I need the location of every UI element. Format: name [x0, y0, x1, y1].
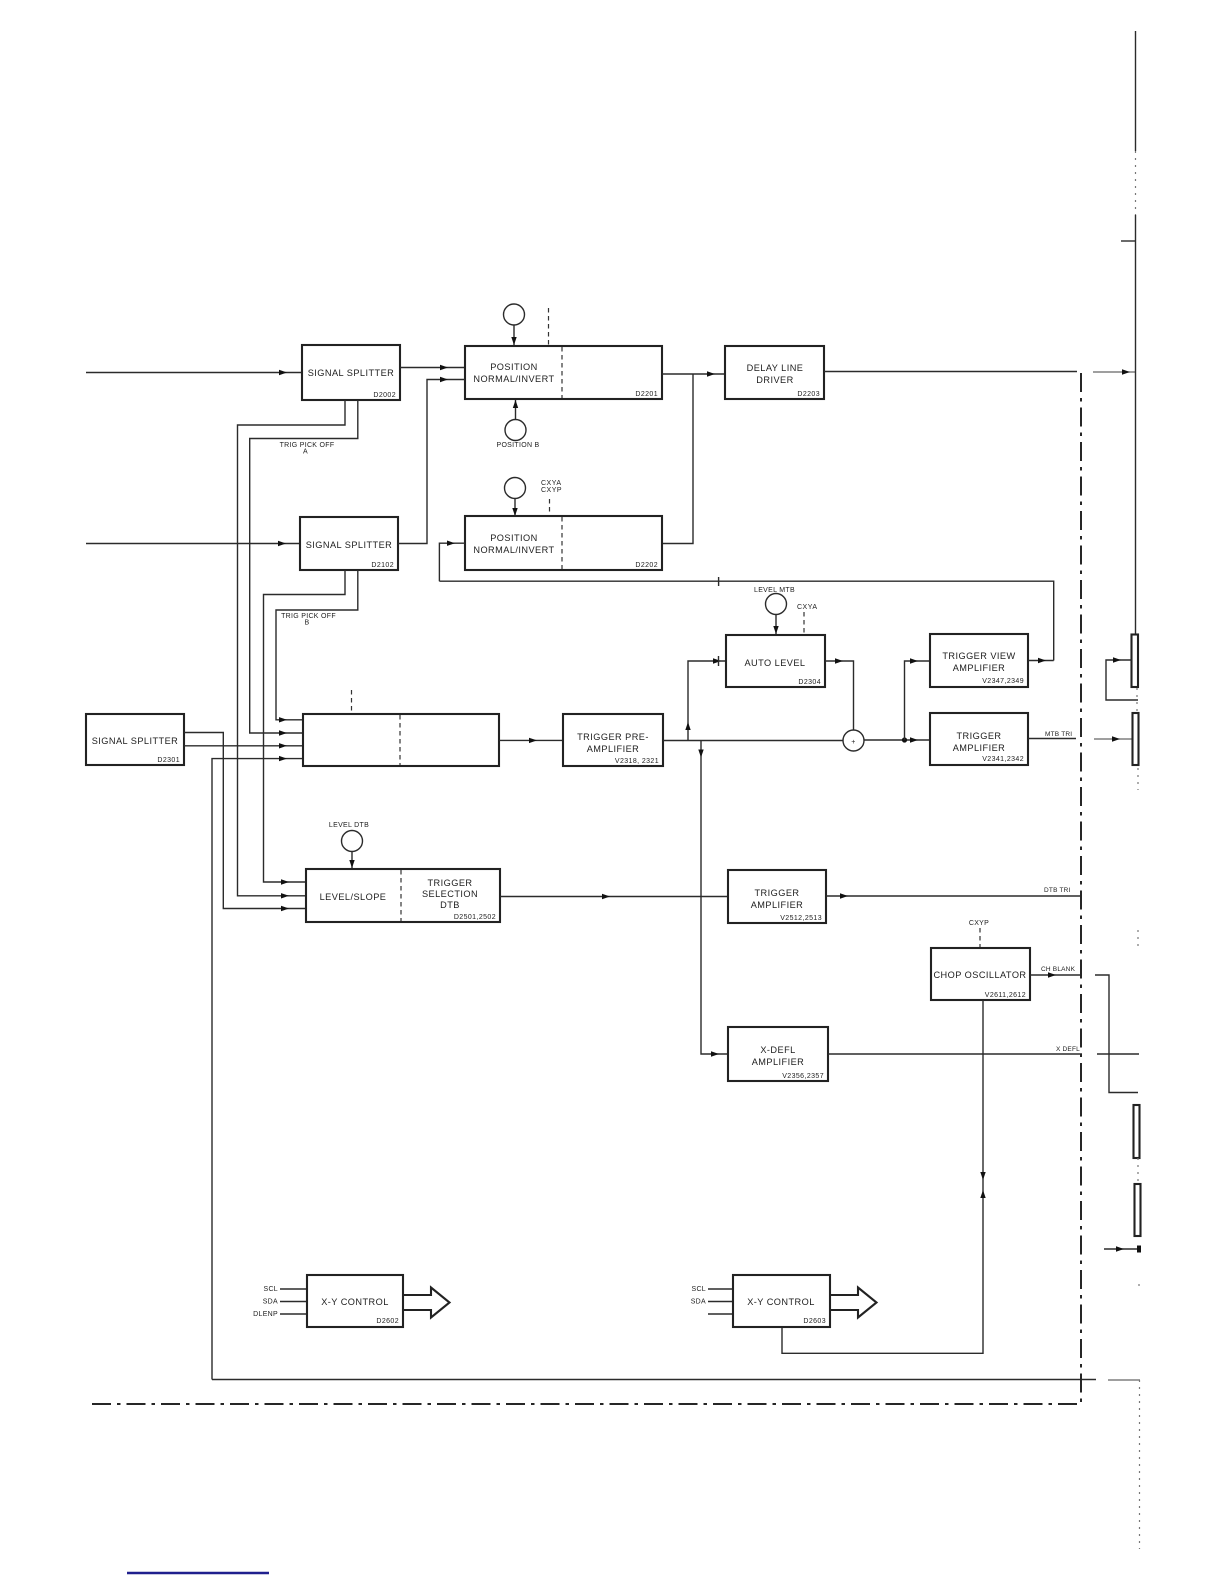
arrowhead into signal splitter D2102	[278, 541, 286, 546]
trigger view amplifier V2347,2349	[930, 634, 1028, 687]
dashed stub above MTB trigger selection box	[351, 690, 353, 713]
dotted page edge below connectors	[1137, 768, 1139, 790]
wire: SCL input to D2603	[708, 1288, 733, 1290]
arrowhead into MTB TRI connector	[1112, 736, 1120, 741]
arrowhead into level/slope top	[349, 860, 354, 868]
arrowhead into trigger view amplifier	[910, 658, 918, 663]
svg-text:D2201: D2201	[635, 391, 658, 398]
svg-text:D2203: D2203	[797, 391, 820, 398]
wire: branch down to X-DEFL amplifier	[701, 741, 728, 1055]
svg-text:NORMAL/INVERT: NORMAL/INVERT	[473, 545, 554, 555]
arrowhead into connector box 1	[1113, 657, 1121, 662]
svg-text:SIGNAL SPLITTER: SIGNAL SPLITTER	[308, 368, 395, 378]
summing node +	[843, 730, 864, 751]
arrowhead on CH BLANK output	[1048, 972, 1056, 977]
arrowhead up into D2201 bottom	[513, 400, 518, 408]
wire: trigger view feedback long horizontal	[439, 581, 1053, 660]
arrowhead on DTB output line	[602, 894, 610, 899]
signal splitter D2002	[302, 345, 400, 400]
svg-text:AMPLIFIER: AMPLIFIER	[953, 663, 1006, 673]
svg-text:CXYA: CXYA	[797, 604, 818, 611]
wire: level pot down into auto level top	[775, 615, 777, 636]
trigger amplifier MTB V2341,2342	[930, 713, 1028, 765]
tick artifact on feedback line	[718, 577, 720, 586]
connector box 2 (MTB TRI)	[1133, 713, 1139, 765]
svg-text:D2202: D2202	[635, 562, 658, 569]
block arrow output of D2603	[830, 1288, 877, 1318]
svg-text:V2341,2342: V2341,2342	[982, 756, 1024, 763]
svg-text:X-DEFL: X-DEFL	[760, 1045, 795, 1055]
svg-text:D2602: D2602	[376, 1318, 399, 1325]
arrowhead into bottom connector	[1116, 1246, 1124, 1251]
svg-text:SELECTION: SELECTION	[422, 889, 478, 899]
svg-text:DLENP: DLENP	[253, 1311, 278, 1318]
svg-text:SIGNAL SPLITTER: SIGNAL SPLITTER	[92, 736, 179, 746]
svg-text:D2102: D2102	[371, 562, 394, 569]
dashed stub above auto level	[803, 612, 805, 634]
svg-text:V2347,2349: V2347,2349	[982, 678, 1024, 685]
wire: level DTB pot down into box top	[351, 852, 353, 870]
svg-text:CXYP: CXYP	[541, 487, 562, 494]
svg-text:TRIGGER: TRIGGER	[754, 888, 799, 898]
tick connector on right edge line	[1121, 240, 1136, 242]
arrowhead down into D2202 top	[512, 508, 517, 516]
wire: trigger view output to feedback loop	[1028, 660, 1054, 662]
wire: channel B input line	[86, 543, 300, 545]
svg-text:CXYP: CXYP	[969, 920, 989, 927]
chop oscillator V2611,2612	[931, 948, 1030, 1000]
dashed stub above D2201	[548, 308, 550, 346]
wire: trig pick off B line 1 from D2102 down to DTB selection	[264, 570, 346, 882]
connector box 1 (trigger view to CRT)	[1132, 635, 1139, 688]
wire: loop into connector box 1	[1106, 660, 1138, 700]
arrowhead up on chop sync line	[980, 1190, 985, 1198]
delay line driver D2203	[725, 346, 824, 399]
arrowhead into D2201 input 1	[440, 365, 448, 370]
wire: third input to D2603	[708, 1313, 733, 1315]
svg-text:SDA: SDA	[263, 1299, 278, 1306]
svg-text:AUTO LEVEL: AUTO LEVEL	[744, 658, 805, 668]
arrowhead down into D2201 top	[511, 337, 516, 345]
svg-text:SDA: SDA	[691, 1299, 706, 1306]
wire: D2002 to D2201 input 1	[400, 367, 465, 369]
wire: trig pick off B line 2 from D2102 down to MTB selection	[276, 570, 358, 720]
X-DEFL amplifier V2356,2357	[728, 1027, 828, 1081]
svg-text:AMPLIFIER: AMPLIFIER	[953, 743, 1006, 753]
wire: SDA input to D2603	[708, 1301, 733, 1303]
dotted page edge dot	[1138, 1284, 1140, 1290]
svg-text:TRIGGER: TRIGGER	[427, 878, 472, 888]
svg-text:V2356,2357: V2356,2357	[782, 1073, 824, 1080]
right edge: faint dashed piece	[1135, 151, 1137, 215]
svg-text:X-Y CONTROL: X-Y CONTROL	[747, 1297, 815, 1307]
svg-text:DTB: DTB	[440, 900, 460, 910]
wire: X DEFL continuation beyond fold	[1097, 1053, 1139, 1055]
wire: faint enclosure continuation beyond fold	[1108, 1379, 1140, 1381]
wire: CH BLANK output	[1030, 974, 1082, 976]
wire: chop oscillator sync line down to X-Y control loop	[782, 1000, 983, 1353]
svg-text:A: A	[303, 449, 308, 456]
fold line: dash-dot boundary vertical and bottom	[86, 373, 1081, 1404]
svg-text:POSITION: POSITION	[490, 362, 538, 372]
wire: trig pick off A line 1 from D2002 down to DTB selection	[238, 400, 346, 896]
wire: DLENP input to D2602	[280, 1313, 307, 1315]
svg-text:LEVEL/SLOPE: LEVEL/SLOPE	[320, 892, 387, 902]
dashed divider inside MTB selection box	[399, 715, 401, 765]
svg-text:NORMAL/INVERT: NORMAL/INVERT	[473, 374, 554, 384]
arrowhead into DTB selection input 1	[281, 879, 289, 884]
potentiometer: POSITION B below D2201	[505, 420, 526, 441]
svg-text:CH BLANK: CH BLANK	[1041, 966, 1076, 973]
arrowhead into DTB selection input 2	[281, 893, 289, 898]
arrowhead into X-DEFL amplifier	[711, 1051, 719, 1056]
trigger pre-amplifier V2318,2321	[563, 714, 663, 766]
junction node dot	[902, 737, 907, 742]
arrowhead on preamp input	[529, 738, 537, 743]
wire: D2201 output to delay line driver	[662, 373, 725, 375]
arrowhead into MTB selection input 3	[279, 743, 287, 748]
dashed divider inside DTB selection box	[400, 870, 402, 921]
dashed divider inside D2201	[561, 347, 563, 398]
arrowhead into delay line driver	[707, 371, 715, 376]
blue pen mark at page bottom	[127, 1572, 269, 1575]
arrowhead on auto level output	[835, 658, 843, 663]
wire: POSITION B pot up into D2201 bottom	[515, 400, 517, 420]
svg-text:V2512,2513: V2512,2513	[780, 915, 822, 922]
svg-text:TRIGGER VIEW: TRIGGER VIEW	[942, 651, 1015, 661]
svg-text:AMPLIFIER: AMPLIFIER	[751, 900, 804, 910]
trigger amplifier DTB V2512,2513	[728, 870, 826, 923]
wire: branch up to trigger view amplifier	[905, 661, 931, 740]
arrowhead into DTB selection input 3	[281, 906, 289, 911]
svg-text:X-Y CONTROL: X-Y CONTROL	[321, 1297, 389, 1307]
svg-text:D2301: D2301	[157, 757, 180, 764]
wire: auto level output down into summing node	[825, 661, 854, 730]
svg-text:DELAY LINE: DELAY LINE	[747, 363, 804, 373]
wire: enclosure feedback into MTB selection input 4	[212, 759, 303, 1380]
svg-text:V2611,2612: V2611,2612	[985, 992, 1026, 999]
block: level/slope + trigger selection DTB D2501,2502	[306, 869, 500, 922]
signal splitter D2301	[86, 714, 184, 765]
wire: stub arrow into bottom connector	[1104, 1248, 1139, 1250]
arrowhead into D2202 input	[447, 541, 455, 546]
wire: junction vertical from D2202 output up to delay line input	[662, 374, 693, 544]
wire: trigger view signal into D2202 input	[439, 543, 465, 581]
op block: position normal/invert D2202	[465, 516, 662, 570]
svg-text:AMPLIFIER: AMPLIFIER	[587, 744, 640, 754]
wire: enclosure bottom line	[212, 1379, 1096, 1381]
wire: delay line output continuation beyond fold	[1093, 371, 1135, 373]
wire: branch up to auto level input	[688, 661, 726, 741]
wire: DTB TRI output to fold line	[826, 895, 1082, 897]
dashed stub above chop oscillator	[979, 928, 981, 947]
dotted page edge between box 3 and 4	[1137, 1158, 1139, 1184]
right edge: main vertical line lower segment	[1135, 215, 1137, 634]
wire: preamp output to summing node	[663, 740, 843, 742]
svg-text:D2603: D2603	[803, 1318, 826, 1325]
arrowhead down on X-DEFL branch	[698, 750, 703, 758]
svg-text:LEVEL DTB: LEVEL DTB	[329, 822, 369, 829]
potentiometer: LEVEL MTB above auto level	[766, 594, 787, 615]
block arrow output of D2602	[403, 1288, 450, 1318]
svg-text:D2002: D2002	[373, 392, 396, 399]
svg-text:DRIVER: DRIVER	[756, 375, 793, 385]
svg-text:D2501,2502: D2501,2502	[454, 914, 496, 921]
wire: CH BLANK continuation beyond fold	[1095, 975, 1138, 1093]
dotted page edge segment near chop	[1137, 930, 1139, 946]
arrowhead on DTB TRI output	[840, 893, 848, 898]
svg-text:+: +	[851, 739, 855, 746]
potentiometer: position A control above D2201	[504, 304, 525, 325]
block: MTB trigger selection (unlabelled)	[303, 714, 499, 766]
svg-text:TRIGGER PRE-: TRIGGER PRE-	[577, 732, 649, 742]
wire: MTB TRI continuation to connector	[1094, 738, 1133, 740]
wire: summing node to trigger amplifier MTB	[864, 739, 930, 741]
arrowhead up on auto level branch	[685, 722, 690, 730]
potentiometer: LEVEL DTB above level/slope	[342, 831, 363, 852]
wire: SDA input to D2602	[280, 1301, 307, 1303]
potentiometer: position control above D2202	[505, 478, 526, 499]
connector blob mark	[1137, 1246, 1141, 1253]
svg-text:X DEFL: X DEFL	[1056, 1046, 1080, 1053]
svg-text:SIGNAL SPLITTER: SIGNAL SPLITTER	[306, 540, 393, 550]
dashed stub above D2202	[549, 499, 551, 516]
connector box 4 (X DEFL)	[1135, 1184, 1141, 1236]
arrowhead into MTB selection input 2	[279, 730, 287, 735]
arrowhead into auto level top	[773, 626, 778, 634]
dotted page edge between connector boxes	[1136, 688, 1138, 713]
svg-text:CHOP OSCILLATOR: CHOP OSCILLATOR	[933, 970, 1026, 980]
auto level D2304	[726, 635, 825, 687]
svg-text:D2304: D2304	[798, 679, 821, 686]
svg-text:CXYA: CXYA	[541, 480, 562, 487]
wire: pot to D2201 top	[513, 325, 515, 346]
right edge: main vertical line upper segment	[1135, 31, 1137, 151]
op block: position normal/invert D2201	[465, 346, 662, 399]
arrowhead down on chop sync line	[980, 1172, 985, 1180]
wire: channel A input line	[86, 372, 302, 374]
svg-text:AMPLIFIER: AMPLIFIER	[752, 1057, 805, 1067]
svg-text:TRIGGER: TRIGGER	[956, 731, 1001, 741]
wire: MTB selection output to trigger pre-amplifier	[499, 739, 563, 741]
arrowhead into MTB selection input 1	[279, 717, 287, 722]
arrowhead and tick on auto level input	[713, 658, 721, 663]
dashed divider inside D2202	[561, 517, 563, 569]
connector box 3 (CH BLANK)	[1134, 1105, 1140, 1158]
svg-text:MTB TRI: MTB TRI	[1045, 731, 1072, 738]
wire: X DEFL output to fold line	[828, 1053, 1082, 1055]
wire: pot down into D2202 top	[514, 499, 516, 517]
X-Y control D2602	[307, 1275, 403, 1327]
wire: D2102 output up to D2201 input 2	[398, 380, 465, 544]
signal splitter D2102	[300, 517, 398, 570]
dotted page edge below enclosure	[1139, 1380, 1141, 1549]
X-Y control D2603	[733, 1275, 830, 1327]
wire: DTB selection output to trigger amplifier DTB	[500, 896, 728, 898]
wire: delay line driver output to fold line	[824, 371, 1077, 373]
arrowhead into right edge line	[1122, 369, 1130, 374]
arrowhead into D2201 input 2	[440, 377, 448, 382]
svg-text:B: B	[305, 620, 310, 627]
svg-text:V2318, 2321: V2318, 2321	[615, 758, 659, 765]
arrowhead into signal splitter D2002	[279, 370, 287, 375]
wire: MTB TRI output	[1028, 738, 1076, 740]
svg-text:POSITION: POSITION	[490, 533, 538, 543]
arrowhead into trigger amplifier MTB	[910, 737, 918, 742]
svg-text:SCL: SCL	[691, 1286, 706, 1293]
svg-text:SCL: SCL	[263, 1286, 278, 1293]
svg-text:DTB TRI: DTB TRI	[1044, 887, 1071, 894]
wire: D2301 output 2 to MTB selection input 3	[184, 745, 303, 747]
wire: trig pick off A line 2 from D2002 down to MTB selection	[250, 400, 358, 733]
arrowhead on trigger view output	[1038, 658, 1046, 663]
wire: SCL input to D2602	[280, 1288, 307, 1290]
wire: D2301 output 1 down to DTB selection input 3	[184, 733, 306, 909]
svg-text:POSITION B: POSITION B	[496, 442, 539, 449]
arrowhead into MTB selection input 4	[279, 756, 287, 761]
